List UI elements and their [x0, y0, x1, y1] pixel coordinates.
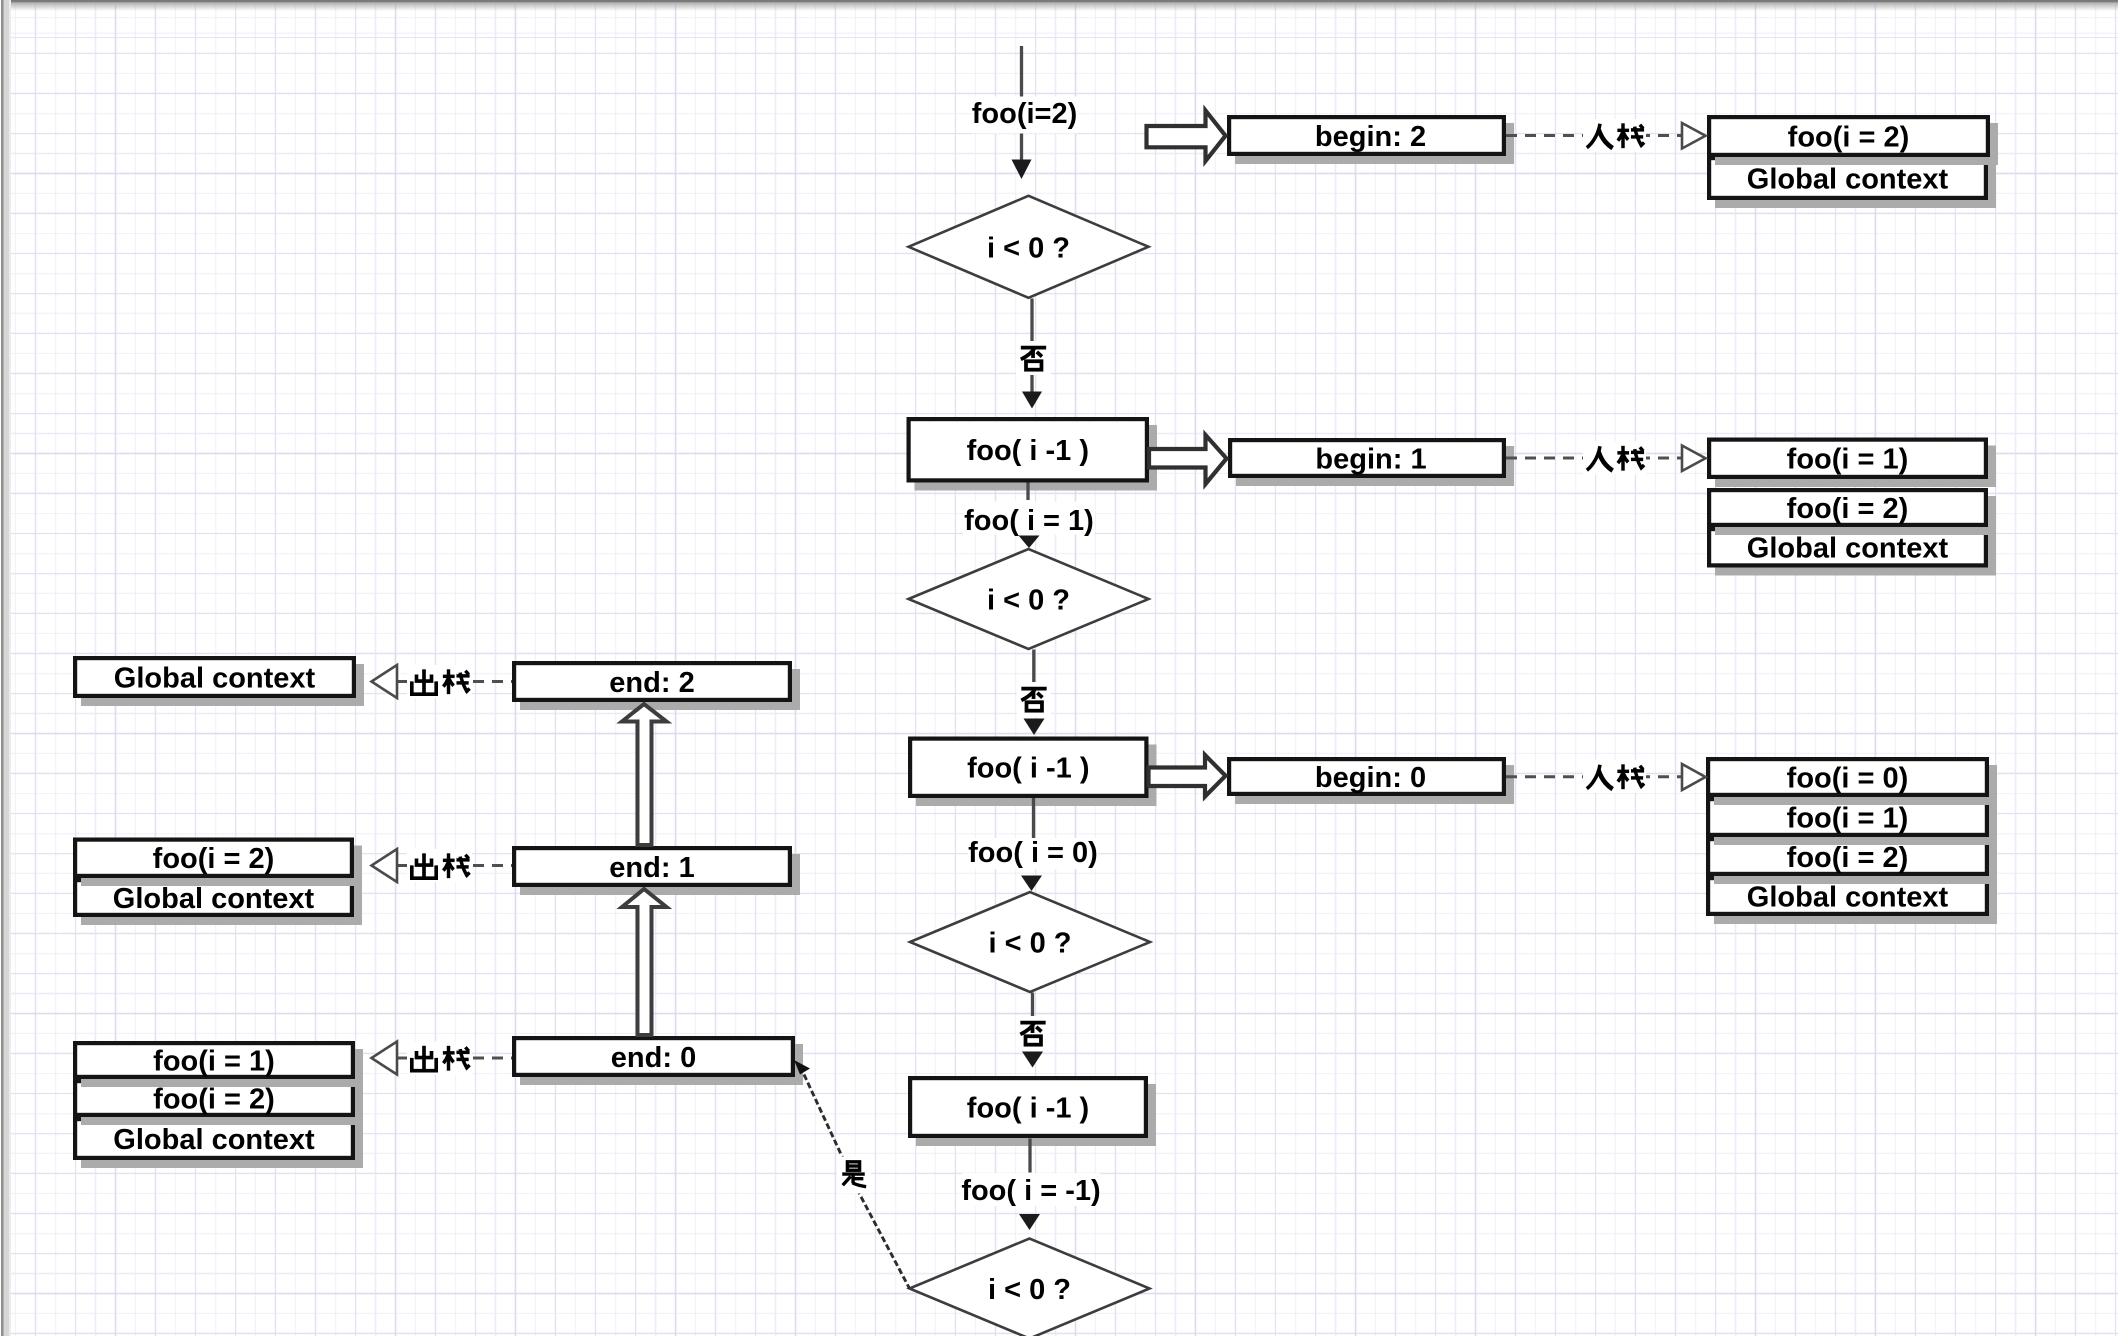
right stack row1: box foo(i = 2) — [1709, 117, 1998, 165]
left stack row end0: box foo(i = 2) — [75, 1081, 363, 1125]
right stack row2: box Global context — [1709, 529, 1996, 575]
svg-text:foo( i -1 ): foo( i -1 ) — [967, 435, 1089, 467]
svg-text:foo(i = 2): foo(i = 2) — [153, 1083, 275, 1115]
arrowhead into diamond 2 — [1019, 536, 1040, 549]
box end: 0 — [514, 1038, 803, 1085]
diamond 2 i < 0 ? — [909, 549, 1149, 649]
right stack row1: box Global context — [1709, 158, 1996, 208]
svg-text:end: 1: end: 1 — [609, 852, 694, 884]
right stack row2: box foo(i = 1) — [1709, 440, 1996, 487]
svg-text:foo( i = 1): foo( i = 1) — [964, 505, 1094, 537]
label foo( i = 1) — [963, 502, 1095, 538]
arrowhead into diamond 4 — [1019, 1214, 1040, 1230]
svg-text:end: 0: end: 0 — [611, 1042, 696, 1074]
dashed wire shi: diamond4 to end0 — [804, 1075, 910, 1289]
open triangle into stack1 — [1682, 123, 1706, 149]
wire: diamond3 to fou label 3 — [1031, 993, 1034, 1017]
svg-text:end: 2: end: 2 — [609, 667, 694, 699]
svg-text:foo(i = 2): foo(i = 2) — [153, 843, 275, 875]
open triangle into left stack2 — [372, 849, 398, 882]
wire: box C to foo(i=-1) label — [1028, 1139, 1031, 1173]
svg-text:foo(i = 1): foo(i = 1) — [153, 1045, 275, 1077]
wire: diamond2 to fou label 2 — [1032, 650, 1035, 683]
right stack row3: box foo(i = 0) — [1708, 759, 1997, 805]
right stack row3: box foo(i = 1) — [1708, 799, 1997, 845]
right stack row3: box foo(i = 2) — [1708, 839, 1997, 884]
box begin: 2 — [1229, 117, 1514, 164]
arrowhead into box A — [1022, 392, 1042, 409]
left stack row end0: box Global context — [75, 1119, 363, 1168]
svg-text:foo( i -1 ): foo( i -1 ) — [967, 753, 1089, 785]
dashed wire begin2 to stack1 — [1506, 134, 1681, 137]
svg-text:foo(i = 1): foo(i = 1) — [1787, 444, 1909, 476]
right stack row3: box Global context — [1708, 878, 1997, 924]
center box C foo( i -1 ) — [910, 1078, 1156, 1146]
label fou 1 (no) — [1016, 341, 1051, 375]
arrowhead into diamond 3 — [1021, 876, 1042, 892]
open triangle into stack2 — [1682, 446, 1706, 472]
svg-text:foo(i = 2): foo(i = 2) — [1787, 842, 1909, 874]
arrowhead shi into end0 corner — [794, 1060, 810, 1075]
svg-text:foo( i = 0): foo( i = 0) — [968, 837, 1098, 869]
svg-text:begin: 1: begin: 1 — [1315, 443, 1426, 475]
arrowhead into box B — [1024, 719, 1045, 736]
svg-text:foo(i = 1): foo(i = 1) — [1787, 802, 1909, 834]
svg-text:i < 0 ?: i < 0 ? — [988, 1274, 1071, 1306]
box begin: 1 — [1230, 440, 1514, 486]
open triangle into left stack3 — [372, 1042, 398, 1075]
label ru-zhan 3 (push) — [1583, 760, 1646, 793]
open triangle into stack3 — [1682, 764, 1706, 790]
wire: top entry line into flow — [1020, 46, 1023, 97]
block arrow box A to begin: 1 — [1149, 435, 1227, 484]
svg-text:foo(i = 2): foo(i = 2) — [1787, 493, 1909, 525]
left stack row end0: box foo(i = 1) — [75, 1043, 363, 1087]
left stack row end1: box Global context — [75, 880, 362, 925]
dashed wire begin1 to stack2 — [1506, 457, 1681, 460]
wire: diamond1 to fou label — [1030, 299, 1033, 342]
dashed wire end0 to left stack3 — [397, 1057, 512, 1060]
wire: top line below foo(i=2) label — [1020, 133, 1023, 161]
label chu-zhan 3 (pop) — [407, 1042, 472, 1075]
svg-text:i < 0 ?: i < 0 ? — [988, 927, 1071, 959]
label shi (yes) — [837, 1157, 871, 1194]
svg-text:i < 0 ?: i < 0 ? — [987, 584, 1070, 616]
wire: box A to foo(i=1) label — [1026, 483, 1029, 501]
svg-text:foo(i = 2): foo(i = 2) — [1788, 121, 1910, 153]
wire: fou label to box A — [1030, 375, 1033, 393]
diamond 3 i < 0 ? — [910, 892, 1150, 992]
svg-text:begin: 2: begin: 2 — [1315, 121, 1426, 153]
svg-text:Global context: Global context — [114, 662, 316, 694]
label foo( i = 0) — [968, 837, 1098, 869]
dashed wire begin0 to stack3 — [1506, 775, 1681, 778]
svg-text:Global context: Global context — [113, 883, 315, 915]
svg-text:foo( i = -1): foo( i = -1) — [961, 1175, 1100, 1207]
svg-text:foo(i=2): foo(i=2) — [972, 98, 1078, 130]
svg-text:foo( i -1 ): foo( i -1 ) — [967, 1092, 1089, 1124]
open triangle into left stack1 — [372, 665, 398, 698]
label fou 3 (no) — [1016, 1016, 1050, 1051]
center box B foo( i -1 ) — [910, 739, 1156, 806]
arrowhead into box C — [1022, 1052, 1043, 1068]
left stack row end1: box foo(i = 2) — [75, 840, 362, 886]
svg-text:i < 0 ?: i < 0 ? — [987, 232, 1070, 264]
wire: box B to foo(i=0) label — [1032, 798, 1035, 838]
svg-text:Global context: Global context — [113, 1124, 315, 1156]
block arrow into begin: 2 — [1147, 111, 1226, 162]
hollow up arrow end1 to end2 — [622, 704, 667, 845]
svg-text:Global context: Global context — [1747, 881, 1949, 913]
diamond 1 i < 0 ? — [909, 196, 1149, 298]
box end: 2 — [514, 663, 800, 710]
label chu-zhan 1 (pop) — [407, 665, 472, 698]
svg-text:Global context: Global context — [1747, 163, 1949, 195]
dashed wire end2 to left stack1 — [397, 680, 512, 683]
svg-text:foo(i = 0): foo(i = 0) — [1787, 762, 1909, 794]
hollow up arrow end0 to end1 — [622, 889, 667, 1035]
arrowhead into diamond 1 — [1012, 160, 1032, 180]
left stack row end2: box Global context — [75, 658, 364, 706]
label foo(i=2) top — [972, 97, 1078, 134]
box begin: 0 — [1229, 759, 1514, 804]
block arrow box B to begin: 0 — [1149, 755, 1226, 797]
diamond 4 i < 0 ? — [910, 1239, 1150, 1336]
label ru-zhan 1 (push) — [1583, 119, 1646, 152]
center box A foo( i -1 ) — [909, 419, 1157, 490]
label foo( i = -1) — [961, 1173, 1100, 1207]
label fou 2 (no) — [1017, 682, 1051, 717]
right stack row2: box foo(i = 2) — [1709, 490, 1996, 535]
label ru-zhan 2 (push) — [1583, 442, 1646, 475]
svg-text:Global context: Global context — [1747, 533, 1949, 565]
box end: 1 — [514, 848, 800, 895]
dashed wire end1 to left stack2 — [397, 864, 512, 867]
svg-text:begin: 0: begin: 0 — [1315, 762, 1426, 794]
label chu-zhan 2 (pop) — [407, 849, 472, 882]
